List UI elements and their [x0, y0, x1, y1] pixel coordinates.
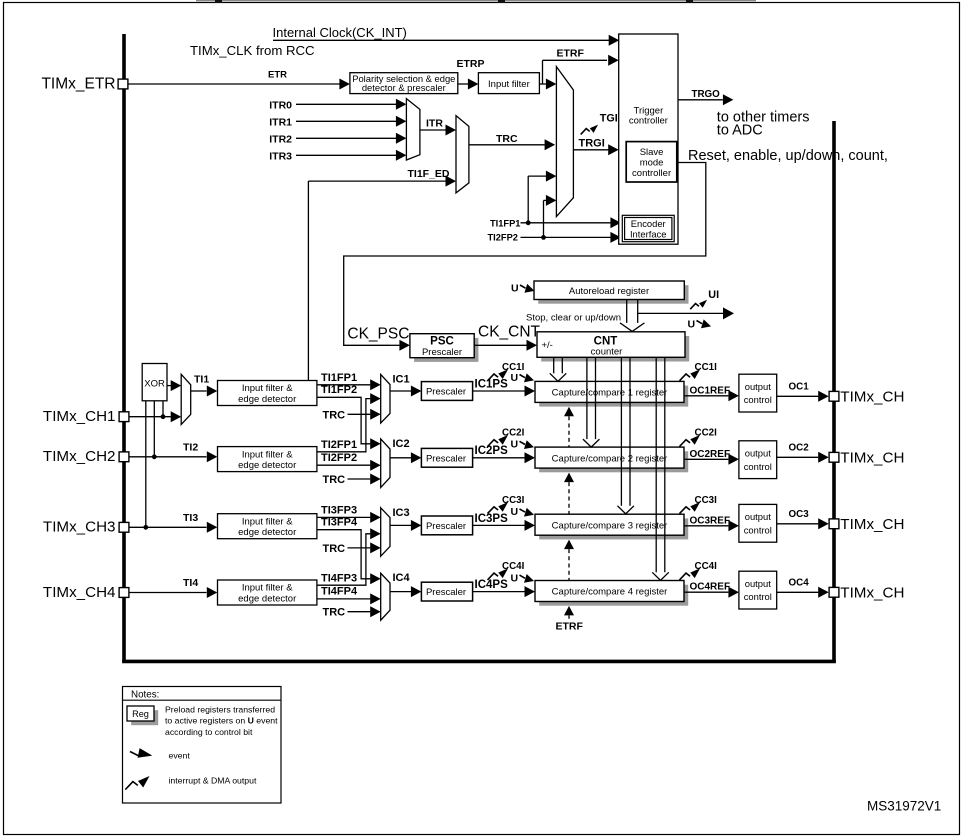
wire IC2 to prescaler	[390, 457, 411, 459]
pin TIMx_CH2 output	[829, 452, 839, 462]
svg-text:ETRF: ETRF	[556, 621, 584, 633]
wire ITR3	[296, 154, 396, 156]
wire IC4 to prescaler	[390, 591, 411, 593]
svg-text:CC3I: CC3I	[502, 495, 525, 506]
svg-text:according to control bit: according to control bit	[165, 727, 253, 737]
svg-text:Slave: Slave	[640, 147, 664, 158]
wire XOR tap from TIMx_CH3	[145, 401, 147, 528]
wire TI3FP4 cross down	[317, 530, 370, 579]
timer block right border	[832, 121, 836, 663]
svg-text:IC3PS: IC3PS	[475, 513, 509, 525]
svg-text:Reset, enable, up/down, count,: Reset, enable, up/down, count,	[688, 148, 888, 164]
interrupt CC1I left	[488, 374, 499, 381]
block capture/compare 3 register	[539, 518, 688, 539]
svg-text:OC4: OC4	[789, 578, 810, 589]
svg-text:TI1FP2: TI1FP2	[321, 384, 357, 396]
wire OC3	[777, 523, 819, 525]
wire IC3PS to register	[473, 524, 525, 526]
pin TIMx_CH1 output	[829, 391, 839, 401]
hollow arrow CNT to capture/compare 2	[586, 357, 588, 439]
wire XOR tap from TIMx_CH2	[153, 401, 155, 457]
wire TRC main	[469, 144, 545, 146]
svg-text:Prescaler: Prescaler	[426, 521, 466, 532]
svg-text:TI1: TI1	[194, 373, 209, 385]
svg-text:CNT: CNT	[594, 335, 618, 347]
svg-text:Capture/compare 4 register: Capture/compare 4 register	[552, 587, 668, 598]
svg-text:TRGO: TRGO	[692, 89, 721, 100]
svg-text:TI4FP3: TI4FP3	[321, 572, 357, 584]
block trigger controller	[619, 34, 678, 244]
svg-text:TI3FP3: TI3FP3	[321, 505, 357, 517]
wire ITR2	[296, 137, 396, 139]
block input filter & edge detector ch3	[218, 514, 317, 539]
svg-text:IC3: IC3	[393, 507, 410, 519]
svg-text:control: control	[744, 394, 772, 405]
svg-text:TIMx_CH: TIMx_CH	[840, 388, 904, 405]
svg-text:Interface: Interface	[630, 229, 666, 240]
svg-text:U: U	[688, 319, 696, 331]
svg-text:counter: counter	[591, 347, 623, 358]
svg-text:output: output	[745, 447, 771, 458]
svg-text:U: U	[511, 439, 519, 451]
svg-text:ITR: ITR	[426, 118, 443, 130]
hollow arrow autoreload to CNT	[626, 300, 628, 323]
interrupt CC3I left	[488, 507, 499, 514]
svg-text:OC4REF: OC4REF	[690, 582, 731, 593]
svg-text:TRC: TRC	[323, 543, 346, 555]
block autoreload register	[538, 285, 688, 304]
svg-text:OC3REF: OC3REF	[690, 515, 731, 526]
block capture/compare 1 register	[539, 386, 688, 407]
wire TI2FP2 up to TRGI mux	[543, 200, 545, 237]
wire OC4REF	[684, 591, 728, 593]
svg-text:Input filter &: Input filter &	[242, 383, 293, 394]
svg-text:TGI: TGI	[600, 112, 618, 124]
wire TRC ch4	[348, 611, 371, 613]
svg-text:PSC: PSC	[430, 335, 454, 347]
svg-text:IC4PS: IC4PS	[475, 579, 509, 591]
svg-text:TIMx_CH4: TIMx_CH4	[43, 584, 116, 601]
svg-text:CC3I: CC3I	[695, 495, 718, 506]
wire XOR tap from TIMx_CH1	[162, 401, 164, 417]
wire ETRF to TRGI mux	[543, 83, 547, 85]
block input filter & edge detector ch1	[218, 381, 317, 406]
wire TRGO	[678, 99, 723, 101]
svg-text:TRGI: TRGI	[579, 137, 605, 149]
svg-text:Internal Clock(CK_INT): Internal Clock(CK_INT)	[273, 25, 407, 40]
svg-text:event: event	[169, 751, 191, 761]
wire ETRF	[539, 83, 542, 85]
junction TI1FP1	[526, 220, 531, 225]
svg-text:OC1REF: OC1REF	[690, 385, 731, 396]
svg-text:IC1PS: IC1PS	[475, 378, 509, 390]
wire TI4 from pin	[130, 592, 207, 594]
svg-text:ITR3: ITR3	[269, 150, 292, 162]
svg-text:TI2FP2: TI2FP2	[488, 233, 518, 243]
wire CK_INT	[273, 39, 609, 41]
wire CK_CNT	[474, 344, 526, 346]
svg-text:Input filter &: Input filter &	[242, 583, 293, 594]
svg-text:ITR0: ITR0	[269, 99, 292, 111]
svg-text:Reg: Reg	[132, 709, 149, 719]
legend Reg box	[131, 710, 158, 725]
svg-text:TIMx_CH: TIMx_CH	[840, 584, 904, 601]
svg-text:output: output	[745, 511, 771, 522]
svg-text:CC1I: CC1I	[695, 362, 718, 373]
junction TI2FP2	[541, 235, 546, 240]
block slave mode controller	[626, 142, 677, 182]
svg-text:XOR: XOR	[144, 379, 165, 390]
svg-text:Prescaler: Prescaler	[422, 347, 462, 358]
svg-text:Input filter &: Input filter &	[242, 449, 293, 460]
wire TI2 from pin	[130, 456, 207, 458]
wire IC1 to prescaler	[390, 390, 411, 392]
block prescaler ch3	[421, 516, 472, 535]
svg-text:ITR2: ITR2	[269, 133, 292, 145]
svg-text:Stop, clear or up/down: Stop, clear or up/down	[526, 313, 621, 324]
wire TI4FP4 to IC4 mux	[317, 598, 370, 600]
svg-text:TI1F_ED: TI1F_ED	[408, 168, 450, 180]
svg-text:Prescaler: Prescaler	[426, 387, 466, 398]
wire ITR1	[296, 120, 396, 122]
wire OC2	[777, 456, 819, 458]
wire TI3FP3 to IC3 mux	[317, 516, 370, 518]
svg-text:TI1FP1: TI1FP1	[490, 218, 520, 228]
svg-text:Input filter: Input filter	[488, 79, 530, 90]
svg-text:edge detector: edge detector	[238, 593, 296, 604]
svg-text:MS31972V1: MS31972V1	[867, 799, 941, 814]
block prescaler ch1	[421, 382, 472, 401]
svg-text:TRC: TRC	[323, 607, 346, 619]
svg-text:to active registers on U event: to active registers on U event	[165, 716, 278, 726]
svg-text:U: U	[511, 572, 519, 584]
block output control ch4	[739, 571, 777, 609]
svg-text:OC2REF: OC2REF	[690, 449, 731, 460]
svg-text:TRC: TRC	[323, 409, 346, 421]
svg-text:Capture/compare 3 register: Capture/compare 3 register	[552, 520, 668, 531]
svg-text:OC1: OC1	[789, 382, 810, 393]
svg-text:CK_PSC: CK_PSC	[347, 326, 409, 343]
block output control ch2	[739, 441, 777, 479]
interrupt UI	[690, 304, 699, 310]
svg-text:detector & prescaler: detector & prescaler	[362, 82, 446, 93]
svg-text:U: U	[511, 372, 519, 384]
block polarity selection & edge detector & prescaler	[350, 73, 458, 94]
svg-text:TIMx_ETR: TIMx_ETR	[41, 76, 115, 93]
svg-text:output: output	[745, 381, 771, 392]
svg-text:TI2: TI2	[183, 441, 198, 453]
wire OC2REF	[684, 458, 728, 460]
svg-text:interrupt & DMA output: interrupt & DMA output	[169, 776, 257, 786]
interrupt CC1I right	[680, 374, 691, 381]
svg-text:TI2FP2: TI2FP2	[321, 452, 357, 464]
svg-text:edge detector: edge detector	[238, 460, 296, 471]
mux TRC select	[456, 116, 469, 193]
svg-text:controller: controller	[632, 168, 671, 179]
wire IC2PS to register	[473, 457, 525, 459]
mux IC1 select	[381, 375, 390, 424]
svg-text:TI4: TI4	[183, 577, 198, 589]
legend event symbol	[130, 752, 140, 757]
mux TI1 select	[181, 374, 191, 424]
wire TI1 from pin	[130, 416, 171, 418]
wire OC4	[777, 591, 819, 593]
svg-text:edge detector: edge detector	[238, 527, 296, 538]
wire TI4FP3 cross up	[317, 534, 370, 585]
wire ETRP	[458, 83, 469, 85]
wire TI3 from pin	[130, 526, 207, 528]
wire IC3 to prescaler	[390, 524, 411, 526]
wire TI1FP1 to IC1 mux	[317, 384, 370, 386]
wire ITR0	[296, 103, 396, 105]
interrupt CC2I right	[680, 440, 691, 447]
svg-text:control: control	[744, 591, 772, 602]
wire IC4PS to register	[473, 591, 525, 593]
svg-text:UI: UI	[708, 289, 719, 301]
interrupt CC3I right	[680, 507, 691, 514]
wire OC1REF	[684, 395, 728, 397]
svg-text:control: control	[744, 461, 772, 472]
block capture/compare 4 register	[539, 585, 688, 606]
svg-text:TRC: TRC	[323, 474, 346, 486]
block capture/compare 2 register	[539, 451, 688, 472]
block input filter & edge detector ch4	[218, 580, 317, 605]
hollow arrow CNT to capture/compare 4	[655, 357, 657, 572]
block prescaler ch2	[421, 448, 472, 467]
mux IC2 select	[381, 439, 390, 488]
pin TIMx_CH3 output	[829, 519, 839, 529]
svg-text:TIMx_CH1: TIMx_CH1	[43, 408, 116, 425]
legend notes box	[123, 687, 282, 804]
svg-text:ETR: ETR	[268, 70, 287, 81]
hollow arrow CNT to capture/compare 3	[620, 357, 622, 506]
block output control ch1	[739, 374, 777, 412]
svg-text:Encoder: Encoder	[631, 218, 666, 229]
interrupt CC4I right	[680, 573, 691, 580]
svg-text:Preload registers transferred: Preload registers transferred	[165, 704, 275, 714]
svg-text:Notes:: Notes:	[131, 690, 159, 701]
wire ETR	[129, 83, 340, 85]
mux IC3 select	[381, 508, 390, 556]
svg-text:ITR1: ITR1	[269, 116, 292, 128]
wire TRC ch3	[348, 547, 371, 549]
svg-text:TI3: TI3	[183, 512, 198, 524]
wire TI2FP2 to IC2 mux	[317, 464, 370, 466]
hollow arrow CNT to capture/compare 1	[553, 357, 555, 373]
block output control ch3	[739, 504, 777, 542]
cut-off caption descenders at top edge	[196, 0, 756, 1]
svg-text:mode: mode	[640, 158, 664, 169]
wire ITR	[420, 129, 446, 131]
pin TIMx_CH4 output	[829, 587, 839, 597]
svg-text:CC4I: CC4I	[695, 561, 718, 572]
mux TRGI select	[556, 67, 573, 217]
block CNT counter	[541, 336, 689, 362]
label TGI with interrupt flag	[581, 129, 590, 135]
svg-text:TI1FP1: TI1FP1	[321, 372, 357, 384]
svg-text:TIMx_CH3: TIMx_CH3	[43, 519, 116, 536]
dashed capture trigger chain	[564, 407, 574, 417]
svg-text:to ADC: to ADC	[717, 123, 763, 139]
svg-text:TIMx_CH: TIMx_CH	[840, 516, 904, 533]
block PSC prescaler	[414, 338, 478, 362]
svg-text:output: output	[745, 578, 771, 589]
block XOR	[142, 364, 167, 401]
svg-text:CC4I: CC4I	[502, 561, 525, 572]
wire TI2FP1 cross up	[317, 399, 370, 452]
wire TI1F_ED	[308, 180, 445, 182]
interrupt CC4I left	[488, 573, 499, 580]
svg-text:Capture/compare 2 register: Capture/compare 2 register	[552, 453, 668, 464]
svg-text:TRC: TRC	[496, 133, 518, 145]
svg-text:Prescaler: Prescaler	[426, 453, 466, 464]
wire TRGI	[573, 149, 608, 151]
wire slave mode controller to prescaler clock	[344, 163, 706, 346]
wire TRC ch2	[348, 478, 371, 480]
block input filter & edge detector ch2	[218, 447, 317, 472]
svg-text:TIMx_CH2: TIMx_CH2	[43, 448, 116, 465]
svg-text:OC3: OC3	[789, 509, 810, 520]
wire OC3REF	[684, 525, 728, 527]
svg-text:edge detector: edge detector	[238, 394, 296, 405]
svg-text:CK_CNT: CK_CNT	[478, 324, 541, 341]
svg-text:U: U	[511, 506, 519, 518]
svg-text:controller: controller	[629, 116, 668, 127]
mux ITR select	[406, 99, 420, 160]
wire TI1 mux output	[191, 390, 207, 392]
svg-text:+/-: +/-	[542, 340, 553, 351]
svg-text:IC2: IC2	[393, 438, 410, 450]
svg-text:IC4: IC4	[393, 572, 411, 584]
wire IC1PS to register	[473, 390, 525, 392]
svg-text:TI3FP4: TI3FP4	[321, 516, 358, 528]
svg-text:Autoreload register: Autoreload register	[569, 286, 649, 297]
svg-text:TIMx_CH: TIMx_CH	[840, 449, 904, 466]
svg-text:TIMx_CLK from RCC: TIMx_CLK from RCC	[190, 43, 315, 58]
svg-text:Prescaler: Prescaler	[426, 587, 466, 598]
svg-text:control: control	[744, 524, 772, 535]
svg-text:TI4FP4: TI4FP4	[321, 586, 358, 598]
svg-text:CC2I: CC2I	[695, 428, 718, 439]
svg-text:TI2FP1: TI2FP1	[321, 439, 357, 451]
timer block left border	[122, 34, 126, 663]
wire update event	[638, 312, 723, 314]
block input filter	[478, 73, 539, 94]
svg-text:IC1: IC1	[393, 374, 410, 386]
svg-text:ETRP: ETRP	[457, 58, 485, 70]
wire TI1FP2 cross down	[317, 397, 370, 444]
svg-text:CC2I: CC2I	[502, 428, 525, 439]
legend interrupt symbol	[125, 782, 138, 790]
wire TRC ch1	[348, 413, 371, 415]
svg-text:Capture/compare 1 register: Capture/compare 1 register	[552, 388, 668, 399]
wire OC1	[777, 395, 819, 397]
interrupt CC2I left	[488, 440, 499, 447]
timer block bottom border	[122, 660, 836, 664]
mux IC4 select	[381, 573, 390, 620]
block prescaler ch4	[421, 582, 472, 601]
svg-text:U: U	[511, 283, 519, 295]
svg-text:ETRF: ETRF	[557, 47, 585, 59]
wire TI1FP1 up to TRGI mux	[527, 176, 529, 223]
wire XOR output to TI1 mux	[167, 385, 171, 387]
block encoder interface	[622, 215, 674, 241]
svg-text:IC2PS: IC2PS	[475, 445, 509, 457]
svg-text:Input filter &: Input filter &	[242, 516, 293, 527]
svg-text:OC2: OC2	[789, 443, 810, 454]
